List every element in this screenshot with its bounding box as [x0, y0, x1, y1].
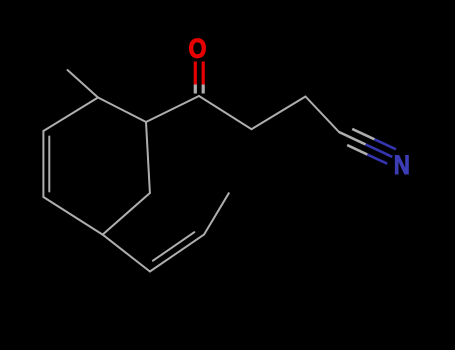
double bond BB=BR inner line [153, 232, 194, 261]
methyl stub at TL [68, 70, 99, 98]
wire B to BB [103, 235, 150, 272]
wire ring top-right to TL vertex [98, 98, 146, 123]
svg-text:N: N [394, 150, 410, 180]
wire chain W to nitrile carbon X [306, 97, 340, 133]
triple bond line center [339, 132, 366, 144]
ring double bond outer line (left edge) [42, 131, 44, 197]
wire TL to left vertex [43, 98, 98, 132]
wire BL to B [43, 197, 102, 235]
double bond C=O (red halves, oxygen side) [195, 62, 203, 85]
wire C1 to chain V [199, 96, 252, 129]
wire chain V to W [252, 97, 306, 130]
triple bond line upper [352, 129, 374, 139]
double bond C=O (gray halves, carbon side) [195, 85, 203, 94]
double bond BB=BR outer line [150, 235, 204, 272]
triple bond line lower [347, 145, 367, 155]
svg-text:O: O [189, 33, 207, 63]
nitrile triple bond C#N : three lines, gray carbon half, blue nitrogen half [339, 129, 396, 164]
wire BR to methyl tip E [204, 193, 229, 234]
wire C1 to ring top-right vertex [146, 96, 199, 122]
ring double bond inner line [48, 137, 50, 192]
wire B to ring right vertex [103, 193, 150, 235]
wire ring right vertex to ring top-right [146, 122, 150, 193]
